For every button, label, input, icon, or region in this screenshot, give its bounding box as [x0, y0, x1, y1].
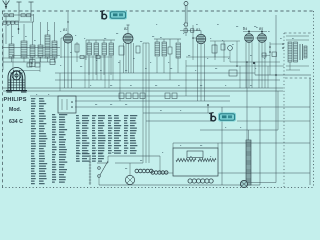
svg-text:B5: B5: [259, 27, 263, 31]
svg-text:PHILIPS: PHILIPS: [4, 97, 27, 103]
svg-text:Mod.: Mod.: [9, 107, 22, 113]
svg-text:B3: B3: [196, 28, 200, 32]
svg-text:B1: B1: [63, 28, 67, 32]
svg-text:634 C: 634 C: [9, 119, 23, 125]
svg-text:B2: B2: [124, 27, 128, 31]
